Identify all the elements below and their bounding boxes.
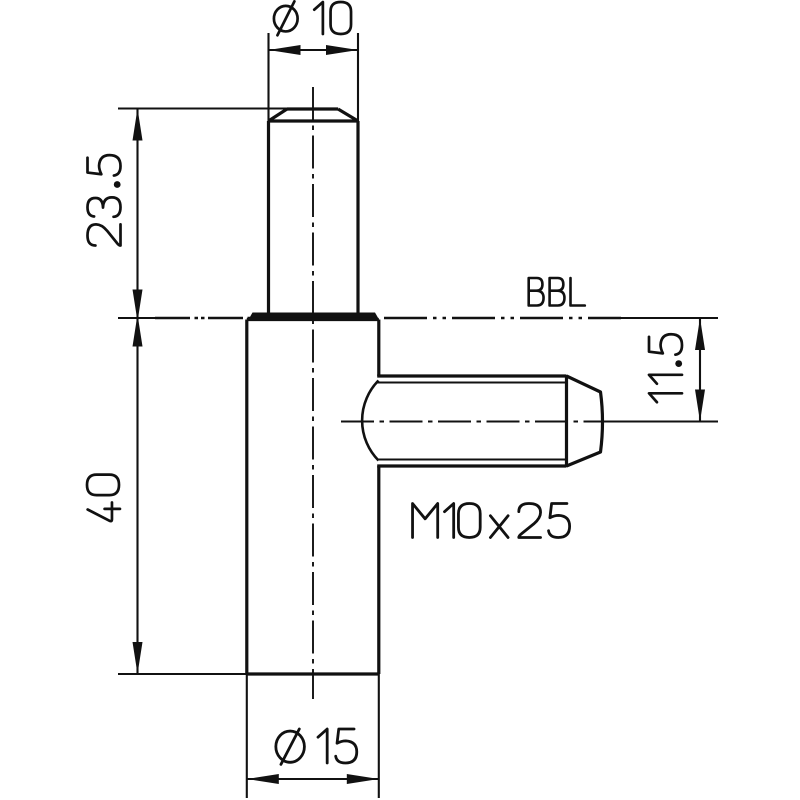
dim line 40 [136, 318, 138, 674]
stud centerline [341, 421, 614, 423]
pin left edge [267, 121, 270, 313]
thread minor line bottom [377, 458, 567, 460]
ext line Ø10 right [357, 33, 359, 121]
ext line Ø15 right [378, 674, 380, 798]
BBL phantom line left [155, 317, 250, 320]
stud centerline extension [614, 420, 718, 422]
stud bottom outline [377, 464, 566, 467]
pin top plateau [287, 107, 338, 110]
arrow 40 bottom [133, 642, 143, 674]
ext line Ø15 left [246, 674, 248, 798]
ref tick 23.5 top [118, 107, 287, 109]
arrow 11.5 top [695, 318, 705, 350]
dim line 23.5 [136, 109, 138, 319]
stud thread-end line [565, 375, 568, 467]
arrow 40 top [133, 315, 143, 347]
stud tip chamfer [567, 376, 603, 466]
label 11.5 (rotated) [649, 334, 682, 402]
label BBL [529, 278, 585, 306]
body bottom edge [247, 672, 379, 675]
arrow Ø10 right [326, 45, 358, 55]
BBL extension line [621, 317, 718, 319]
label M10x25 [413, 504, 570, 538]
dim line 11.5 [699, 318, 701, 422]
dim line Ø15 [247, 778, 379, 780]
label 40 (rotated) [87, 475, 120, 522]
body left edge [245, 320, 248, 675]
arrow Ø15 left [247, 774, 279, 784]
arrow 23.5 top [133, 109, 143, 141]
vertical centerline [312, 87, 314, 699]
pin top chamfer left [269, 109, 288, 121]
collar ring [249, 313, 380, 320]
arrow Ø15 right [347, 774, 379, 784]
pin shoulder line [269, 119, 359, 122]
label Ø 15 [276, 729, 357, 764]
dim line Ø10 [269, 49, 359, 51]
thread minor line top [377, 381, 567, 383]
stud top outline [377, 374, 566, 377]
BBL reference lead-in [118, 317, 157, 319]
pin top chamfer right [338, 109, 358, 121]
ext line Ø10 left [267, 33, 269, 121]
body right edge upper [377, 320, 380, 377]
pin right edge [356, 121, 359, 313]
arrow 11.5 bottom [695, 390, 705, 422]
body right edge lower [377, 466, 380, 674]
ref tick 40 bottom [118, 673, 247, 675]
label 23.5 (rotated) [88, 155, 121, 245]
arrow 23.5 bottom [133, 290, 143, 322]
arrow Ø10 left [269, 45, 301, 55]
body top edge [247, 318, 379, 321]
BBL phantom line right [384, 317, 621, 320]
label Ø 10 [274, 1, 351, 35]
thread run-out arc [362, 381, 378, 461]
